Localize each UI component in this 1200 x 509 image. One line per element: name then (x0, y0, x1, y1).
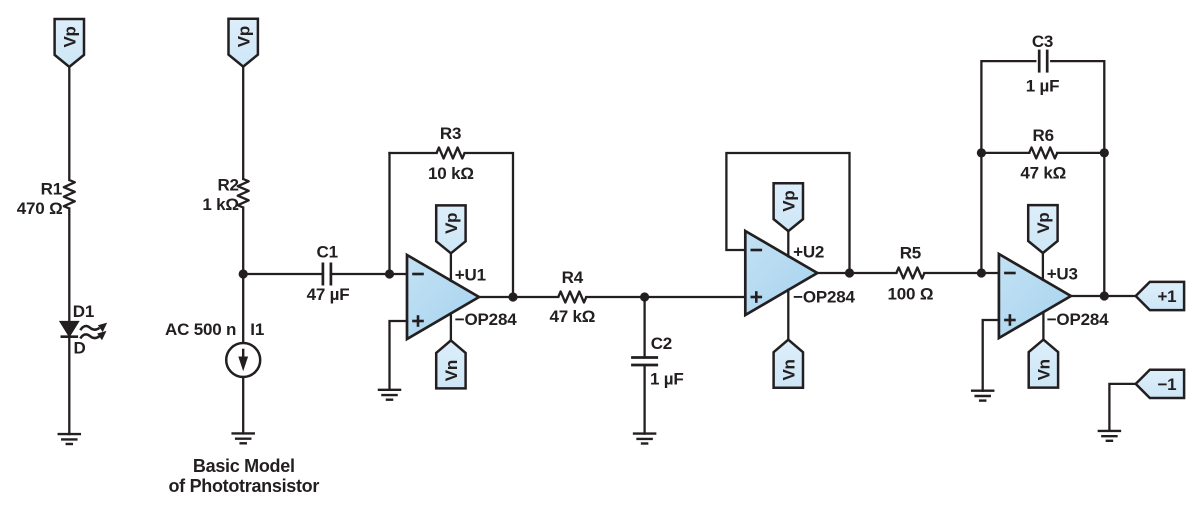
svg-text:Vp: Vp (1034, 212, 1053, 233)
wire node A to C1 (243, 273, 323, 275)
wire C3 to right rail (1051, 61, 1104, 153)
wire Vp to R2 (242, 67, 244, 179)
svg-text:R3: R3 (440, 124, 461, 143)
svg-text:47 kΩ: 47 kΩ (1020, 164, 1066, 183)
node I junction (U3 out) (1100, 291, 1109, 300)
wire node D to U2 noninverting input (645, 296, 746, 298)
current source I1 (226, 343, 260, 377)
svg-text:C2: C2 (651, 334, 672, 353)
svg-text:D1: D1 (73, 302, 94, 321)
ground (C2) (633, 434, 657, 444)
op-amp U2 (745, 231, 817, 315)
wire U2 to Vn flag (787, 290, 789, 340)
ground (-1 flag) (1098, 431, 1122, 441)
power flag Vp (U2) (774, 183, 803, 231)
wire U1 to Vn flag (450, 313, 452, 340)
svg-text:1 µF: 1 µF (1026, 77, 1060, 96)
output flag +1 (1136, 282, 1184, 310)
resistor R5 (896, 268, 924, 279)
op-amp U1 (407, 255, 479, 339)
diode D1 (60, 321, 79, 336)
svg-text:100 Ω: 100 Ω (888, 284, 934, 303)
wire Vp flag to U2 (787, 231, 789, 256)
svg-text:Vp: Vp (234, 26, 253, 47)
wire R6 to node H (1057, 152, 1104, 154)
power flag Vn (U1) (436, 340, 465, 388)
svg-text:R4: R4 (562, 268, 584, 287)
svg-text:Vp: Vp (780, 191, 799, 212)
svg-text:R1: R1 (41, 180, 62, 199)
svg-text:Vn: Vn (780, 359, 799, 380)
svg-text:I1: I1 (250, 320, 264, 339)
ground (U1 + input) (378, 390, 402, 400)
node H junction (R6 right) (1100, 148, 1109, 157)
wire R1 to D1 (68, 209, 70, 322)
wire C1 to node B (331, 273, 390, 275)
wire U2 output (817, 272, 849, 274)
capacitor C2 (631, 358, 658, 366)
wire Vp flag to U1 (450, 253, 452, 281)
wire U3 noninverting input to ground (983, 320, 999, 391)
svg-text:R2: R2 (217, 175, 238, 194)
svg-text:R6: R6 (1033, 126, 1054, 145)
resistor R2 (238, 179, 249, 208)
svg-text:−OP284: −OP284 (793, 287, 855, 306)
wire node F up to R6 node (980, 153, 982, 273)
wire C2 to ground (643, 365, 645, 434)
power flag Vn (U2) (774, 340, 803, 388)
svg-text:Vp: Vp (442, 213, 461, 234)
wire U2 feedback loop (726, 153, 849, 273)
resistor R1 (64, 180, 75, 209)
ground (I1) (231, 433, 255, 443)
svg-text:+U1: +U1 (455, 266, 486, 285)
wire U3 output (1071, 295, 1104, 297)
wire node H down to output node (1103, 153, 1105, 296)
svg-text:−OP284: −OP284 (455, 310, 517, 329)
resistor R6 (1029, 147, 1057, 158)
svg-text:Basic Model: Basic Model (193, 456, 295, 476)
wire node G up to C3 (981, 61, 1035, 153)
wire U3 to Vn flag (1042, 312, 1044, 339)
power flag Vp (R2 column) (229, 19, 258, 67)
op-amp U3 (999, 254, 1071, 338)
node F junction (977, 268, 986, 277)
wire -1 flag to ground (1109, 384, 1135, 431)
ground (D1) (58, 434, 82, 444)
power flag Vn (U3) (1029, 340, 1058, 388)
wire R2 to node A (242, 208, 244, 275)
svg-text:AC 500 n: AC 500 n (165, 320, 236, 339)
wire node G to R6 (981, 152, 1029, 154)
wire I1 to ground (242, 377, 244, 433)
wire D1 to ground (68, 337, 70, 434)
svg-text:+1: +1 (1157, 287, 1176, 306)
svg-text:−1: −1 (1157, 375, 1176, 394)
wire R3 right segment down to output node (465, 153, 513, 297)
power flag Vp (U3) (1028, 205, 1057, 253)
node A junction (239, 269, 248, 278)
svg-text:470 Ω: 470 Ω (17, 199, 63, 218)
svg-text:C3: C3 (1032, 32, 1053, 51)
svg-text:Vp: Vp (61, 26, 80, 47)
wire R5 to node F (924, 272, 981, 274)
svg-text:1 µF: 1 µF (650, 369, 684, 388)
svg-text:R5: R5 (900, 243, 921, 262)
wire R3 left segment (390, 152, 437, 154)
svg-text:+U3: +U3 (1047, 265, 1078, 284)
svg-text:10 kΩ: 10 kΩ (428, 164, 474, 183)
wire Vp to R1 (68, 67, 70, 180)
output flag -1 (1136, 370, 1184, 398)
svg-text:47 µF: 47 µF (307, 285, 350, 304)
node C junction (U1 out) (508, 292, 517, 301)
node E junction (U2 out) (845, 268, 854, 277)
wire R4 to node D (586, 296, 644, 298)
wire U1 noninverting input to ground (390, 321, 408, 390)
ground (U3 + input) (971, 391, 995, 401)
svg-text:C1: C1 (317, 243, 338, 262)
wire U1 output (479, 296, 513, 298)
node B junction (385, 269, 394, 278)
svg-text:47 kΩ: 47 kΩ (549, 307, 595, 326)
svg-text:1 kΩ: 1 kΩ (202, 195, 238, 214)
svg-text:Vn: Vn (1035, 359, 1054, 380)
light arrows of D1 (80, 326, 99, 338)
wire node A to I1 (242, 274, 244, 343)
resistor R4 (558, 292, 586, 303)
svg-text:D: D (74, 338, 86, 357)
wire Vp flag to U3 (1042, 253, 1044, 280)
svg-text:of Phototransistor: of Phototransistor (168, 476, 319, 496)
resistor R3 (437, 148, 465, 159)
wire node F to U3 inverting input (981, 272, 999, 274)
wire node D to C2 (643, 297, 645, 358)
wire node B up to R3 (388, 153, 390, 274)
wire node C to R4 (513, 296, 558, 298)
power flag Vp (left column) (55, 19, 84, 67)
svg-text:Vn: Vn (442, 360, 461, 381)
node G junction (R6 left) (977, 148, 986, 157)
node D junction (640, 292, 649, 301)
capacitor C3 (1039, 50, 1047, 73)
power flag Vp (U1) (436, 205, 465, 253)
wire node I to +1 flag (1104, 295, 1135, 297)
wire node E to R5 (850, 272, 897, 274)
svg-text:+U2: +U2 (793, 243, 824, 262)
capacitor C1 (323, 263, 331, 286)
svg-text:−OP284: −OP284 (1047, 310, 1109, 329)
wire node B to U1 inverting input (390, 273, 408, 275)
